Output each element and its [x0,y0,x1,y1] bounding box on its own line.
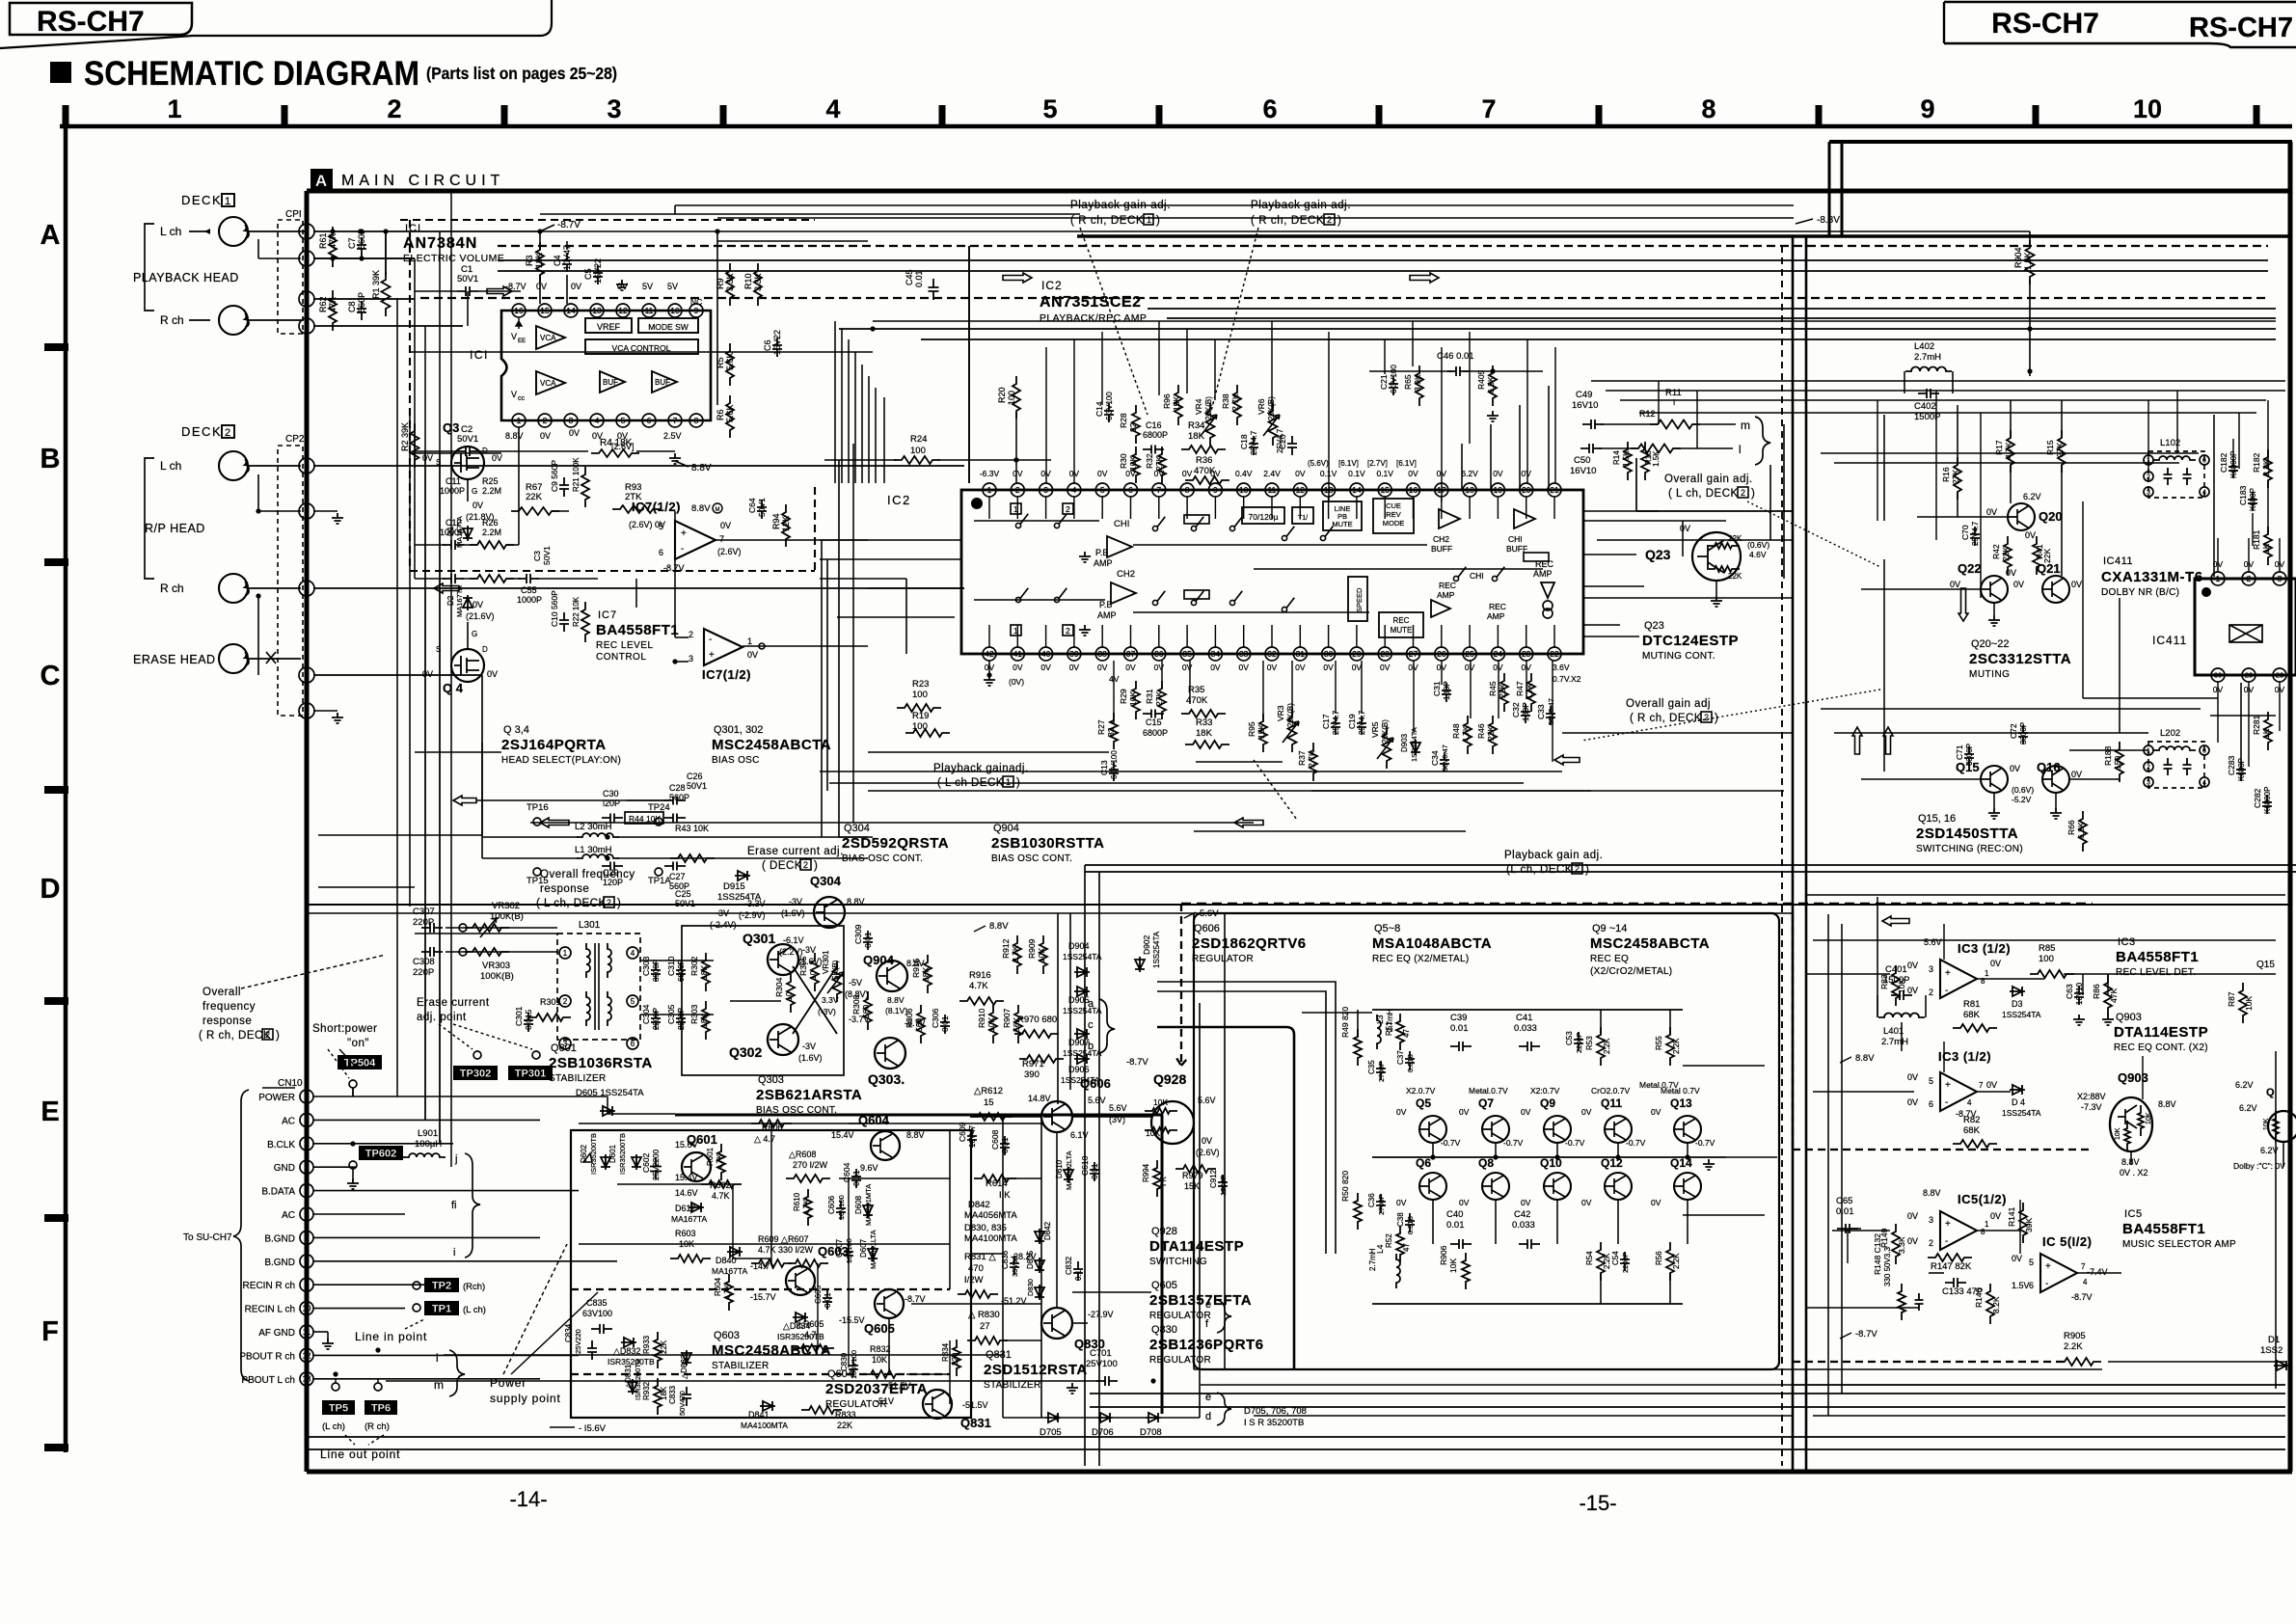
svg-text:47K: 47K [328,297,338,312]
diode D607 MA4091LTA [868,1246,878,1261]
svg-text:REC EQ: REC EQ [1590,954,1629,964]
resistor R601 4.7K [717,1144,725,1180]
grid ruler horizontal line [60,124,2292,129]
svg-text:6.3V100: 6.3V100 [1390,365,1398,393]
wire [2217,682,2219,743]
svg-text:RS-CH7: RS-CH7 [37,6,145,38]
diode D842 2 [1035,1229,1044,1244]
svg-text:R609 △R607: R609 △R607 [758,1234,808,1244]
TP2 circle [413,1282,420,1289]
svg-text:100: 100 [2039,954,2054,964]
svg-text:10K: 10K [1037,948,1046,962]
wire [820,539,961,541]
svg-text:220: 220 [951,1352,959,1366]
svg-text:1: 1 [1013,626,1018,636]
TP6 circle [374,1383,382,1391]
svg-text:0V: 0V [1013,469,1023,478]
leader dashes gain lch [1254,760,1297,820]
svg-text:5: 5 [304,670,309,680]
wire [861,365,863,483]
pot VR5 20K(B) [1383,726,1391,769]
wire CP2 pin2 right [313,465,964,467]
svg-text:D830: D830 [1026,1279,1035,1296]
wire [1133,544,1427,546]
capacitor C8 560P [357,301,366,320]
IC1 BUF amp 2 [652,371,677,392]
svg-text:0V: 0V [2013,580,2024,589]
wire [1357,1010,1359,1037]
wire [396,299,398,1096]
wire [1794,1384,2285,1386]
resistor R303 18K [702,1001,710,1040]
svg-text:-15.5V: -15.5V [839,1315,865,1325]
capacitor C5 16V22 [593,265,603,284]
svg-text:C833: C833 [668,1385,677,1404]
svg-text:C834: C834 [564,1323,573,1342]
wire [717,240,868,242]
power supply inner dashed 2 [571,1373,950,1375]
wire [2267,480,2269,534]
IC2 SPEED box [1348,577,1367,621]
svg-text:0V: 0V [1069,663,1080,672]
svg-text:8.8V: 8.8V [691,463,712,474]
leader arrows erase adj [439,1024,473,1049]
TP302 circle [473,1051,481,1059]
svg-text:0V: 0V [1465,663,1475,672]
svg-text:0.4V: 0.4V [1235,469,1253,478]
IC2 pin stub bottom [1130,625,1132,647]
IC2 pin 35 [1180,647,1194,661]
capacitor C14 6.3V100 [1104,403,1114,422]
svg-text:1: 1 [304,583,309,593]
wire [1883,415,1885,521]
svg-text:20K(B): 20K(B) [1381,719,1390,744]
svg-text:TP301: TP301 [515,1069,546,1080]
svg-text:2: 2 [1327,215,1332,225]
svg-text:To SU-CH7: To SU-CH7 [183,1232,232,1243]
svg-text:22K: 22K [2001,547,2011,561]
wire [2248,682,2250,767]
svg-text:T1/: T1/ [1298,515,1308,522]
svg-text:(0.6V): (0.6V) [1747,540,1769,550]
svg-text:0V: 0V [1990,959,2001,968]
wire [2232,439,2234,464]
IC2 internal ground 1 [1079,552,1091,562]
svg-text:d: d [1205,1411,1211,1422]
wire [1098,872,1100,1466]
CP1 pin 2 [299,224,314,239]
junction [1493,1154,1498,1159]
svg-text:1: 1 [2147,748,2150,755]
svg-text:0V: 0V [1651,1107,1661,1117]
svg-text:-: - [709,635,712,645]
wire [1495,1143,1497,1157]
IC2 pin 42 [983,647,996,661]
transistor Q831 [923,1390,952,1419]
svg-text:7: 7 [2081,1262,2086,1271]
svg-text:Q5~8: Q5~8 [1374,923,1400,934]
capacitor C402 1500P [1918,389,1939,398]
wire [1834,732,2148,734]
voltage 8.8V under IC1 [675,461,689,467]
capacitor C604 0.01 [851,1169,861,1188]
IC2 pin stub bottom [1328,625,1330,647]
svg-text:R51: R51 [1385,1021,1393,1036]
capacitor C4 10V47 [562,253,572,272]
IC2 pin42 ground [988,661,990,675]
svg-text:-7.3V: -7.3V [2081,1102,2102,1112]
diode D610 MA4062LTA [1064,1167,1073,1182]
wire [2240,683,2242,762]
svg-text:MUTE: MUTE [1332,520,1352,528]
svg-text:C31: C31 [1432,681,1442,696]
svg-text:31: 31 [1296,649,1306,659]
svg-text:R834: R834 [941,1342,950,1362]
svg-text:(2.6V): (2.6V) [717,547,742,556]
svg-text:3.9K: 3.9K [1413,374,1422,392]
svg-text:3: 3 [304,294,309,304]
svg-text:2: 2 [689,630,693,639]
svg-text:R832: R832 [870,1344,891,1354]
wire [309,912,1794,914]
IC2 pin 40 [1040,647,1053,661]
wire [439,453,441,1144]
REC EQ bottom rail [1372,1303,1683,1305]
svg-text:0V: 0V [1581,1198,1592,1207]
svg-text:4: 4 [305,1163,310,1172]
svg-text:2.4V: 2.4V [1263,469,1281,478]
svg-text:6.2V: 6.2V [2235,1080,2254,1090]
wire [415,933,557,934]
grid ruler tick [1376,105,1383,126]
grid ruler row tick [44,786,68,794]
svg-text:10K: 10K [1448,1259,1458,1273]
wire [2019,1200,2021,1254]
svg-text:L ch: L ch [160,225,181,238]
grid ruler tick [501,105,508,126]
wire [1498,661,1499,718]
IC2 pin stub bottom [1526,625,1527,647]
wire [1084,865,1086,1466]
junction [1554,1154,1559,1159]
svg-text:Metal.0.7V: Metal.0.7V [1469,1086,1508,1096]
TP602 circle [349,1161,357,1169]
svg-text:SCHEMATIC DIAGRAM: SCHEMATIC DIAGRAM [84,55,419,93]
wire [1957,405,1958,465]
IC1 BUF amp 1 [600,371,625,392]
capacitor C830 100V100 [849,1358,858,1377]
svg-text:ISR35200TB: ISR35200TB [618,1133,627,1175]
svg-text:R610: R610 [793,1192,801,1211]
wire C2 to R4 [415,450,457,452]
wire [949,1130,951,1289]
svg-text:MSA1048ABCTA: MSA1048ABCTA [1372,935,1492,952]
resistor R912 2.7K [1013,935,1021,974]
connector CP2 dashed shell [278,446,303,716]
IC2 pin stub top [1384,497,1386,519]
svg-text:1.5V: 1.5V [2012,1281,2030,1290]
svg-text:2.7K: 2.7K [1011,945,1020,962]
IC2 pin 21 [1548,483,1561,497]
svg-text:Q304: Q304 [844,823,870,834]
svg-text:C28: C28 [669,783,686,793]
resistor R304 10 [787,974,795,1013]
capacitor C6 16V22 [772,338,782,357]
svg-text:R52: R52 [1385,1233,1393,1248]
svg-text:C608: C608 [990,1129,1000,1150]
svg-text:Q904: Q904 [993,823,1019,834]
wire [1069,913,1071,1090]
wire [1495,1200,1497,1244]
wire [446,927,557,929]
svg-text:4: 4 [1967,1098,1972,1107]
svg-text:Playback gainadj.: Playback gainadj. [933,763,1029,774]
IC1 VREF box [585,318,632,333]
svg-text:20K(B): 20K(B) [1204,396,1213,420]
svg-text:11: 11 [303,1328,311,1337]
IC2 pin stub bottom [1384,625,1386,647]
resistor R87 10K right edge [2239,983,2247,1023]
svg-text:0V: 0V [1396,1198,1407,1207]
wire [608,1113,675,1115]
svg-text:C63: C63 [2065,984,2074,999]
svg-text:390: 390 [1024,1069,1040,1080]
wire [1201,1384,2285,1386]
resistor R14 1.5K [1624,442,1632,480]
wire [1783,424,1785,579]
AF GND ground [327,1332,329,1339]
svg-text:C17: C17 [1321,714,1331,729]
svg-text:3: 3 [2278,574,2282,583]
pot VR6 20K(B) [1269,403,1278,446]
svg-text:6: 6 [2202,458,2206,465]
diode D705 [1045,1413,1061,1422]
wire [2279,682,2281,731]
svg-text:C38: C38 [1396,1212,1405,1227]
resistor R188 150 [2116,742,2123,782]
IC2 internal switch 10 [1152,600,1157,605]
svg-text:2.2K: 2.2K [2261,459,2271,476]
svg-text:Q303: Q303 [758,1074,784,1086]
svg-text:10K: 10K [2263,1118,2270,1130]
capacitor C72 3300P [2018,725,2028,744]
svg-text:STABILIZER: STABILIZER [549,1073,607,1084]
wire [1432,1143,1434,1157]
svg-text:C36: C36 [1367,1193,1376,1207]
resistor R66 6.8K [2079,811,2087,852]
svg-text:TP1A: TP1A [648,876,671,886]
resistor R94 12K [782,504,790,547]
resistor R95 15K [1259,714,1267,752]
svg-text:6800P: 6800P [1143,728,1168,738]
svg-text:j: j [454,1153,457,1165]
svg-text:+: + [1945,1219,1951,1230]
IC2 pin 36 [1152,647,1166,661]
wire [854,352,856,483]
svg-text:1SS254TA: 1SS254TA [1152,931,1161,968]
wire [1669,1273,1671,1304]
capacitor C183 K680P [2248,492,2257,511]
svg-text:1: 1 [747,636,752,646]
IC2 pin 28 [1378,647,1391,661]
IC2 internal switch 8 [1015,597,1020,602]
IC2 body outline [961,490,1583,654]
svg-text:4: 4 [825,95,840,123]
svg-text:1: 1 [167,95,181,123]
resistor R61 47K [329,227,337,267]
svg-text:63V100: 63V100 [582,1309,612,1318]
svg-text:R910: R910 [977,1008,986,1028]
svg-text:REC: REC [1439,581,1456,590]
svg-text:IC3 (1/2): IC3 (1/2) [1958,941,2011,956]
wire [1003,1380,1070,1382]
svg-text:X2:88V: X2:88V [2077,1092,2106,1101]
svg-text:2.7mH: 2.7mH [1881,1037,1908,1047]
resistor R149 3.3K [1892,1224,1900,1264]
IC2 pin 38 [1095,647,1109,661]
wire [2083,697,2218,699]
wire [410,452,501,454]
svg-text:37: 37 [1126,649,1136,659]
wire [1193,913,1195,1369]
wire [2107,974,2109,995]
page curl line top-left [0,0,552,48]
svg-text:18K: 18K [534,253,544,268]
svg-text:AN7351SCE2: AN7351SCE2 [1040,294,1142,311]
IC2 pin stub top [988,497,990,519]
svg-text:C307: C307 [413,907,435,917]
svg-text:CONTROL: CONTROL [596,652,646,663]
svg-text:5: 5 [621,416,626,425]
svg-text:0V: 0V [2006,568,2016,578]
svg-text:470: 470 [968,1263,984,1274]
wire CP2 pin5 right [313,674,482,676]
svg-text:D601: D601 [608,1144,617,1163]
svg-text:2: 2 [1066,504,1070,514]
svg-text:2.7mH: 2.7mH [1368,1248,1377,1271]
wire [674,205,676,214]
transistor Q16 [2042,766,2069,793]
IC411 pin 29 [2242,668,2255,682]
REC EQ gnd mid [1703,1159,1715,1170]
svg-text:-8.7V: -8.7V [1855,1329,1877,1340]
grid ruler row tick [44,1444,68,1451]
hollow arrow up VR8 area 2 [1883,727,1893,754]
svg-text:R87: R87 [2227,991,2236,1007]
IC1 pin 16 [512,304,526,317]
TP1 circle [413,1304,420,1312]
svg-text:27K: 27K [2055,443,2065,457]
IC2 internal ground 2 [1079,625,1091,636]
svg-text:-5V: -5V [849,978,862,988]
wire IC7 out right [716,539,868,541]
wire [424,326,426,1120]
svg-text:0V: 0V [1210,663,1221,672]
bias osc cross wire 1 [793,966,837,1034]
wire [313,257,415,259]
svg-text:27: 27 [1409,649,1418,659]
svg-text:+: + [1945,1080,1951,1091]
voltage label -8.8V top right [1796,219,1813,224]
IC1 pin 9 [689,304,703,317]
capacitor C832 0.1 [1073,1261,1083,1281]
svg-text:24: 24 [1494,649,1503,659]
svg-text:(21.6V): (21.6V) [466,611,495,621]
wire [1861,588,1981,590]
svg-text:(R ch): (R ch) [365,1421,390,1432]
wire [2142,1056,2144,1099]
IC2 internal switch 3 [1152,526,1157,530]
svg-text:K6800P: K6800P [2263,787,2272,814]
svg-text:K680P: K680P [2249,488,2257,511]
svg-text:D608: D608 [854,1195,863,1214]
wire [1600,1273,1602,1304]
svg-text:C37: C37 [1396,1050,1405,1065]
svg-text:REC LEVEL DET.: REC LEVEL DET. [2116,967,2196,978]
wire CN10 pin 12 [313,1354,579,1356]
brace l/m [449,1350,465,1396]
IC2 pin stub bottom [1299,625,1301,647]
IC2 pin stub bottom [1356,625,1358,647]
coil L401 2.7mH [1878,1014,1925,1018]
junction [986,672,991,677]
wire pin2 right [313,230,540,232]
transistor Q302 [768,1024,798,1055]
TP6 box [365,1400,397,1415]
dashed shield box bottom [410,570,815,572]
svg-text:C303: C303 [641,956,651,976]
L401 tank wires [1877,995,1878,1017]
wire [868,376,870,483]
wire [848,1178,850,1367]
TP2 box [424,1278,459,1292]
svg-text:16V22: 16V22 [772,330,782,355]
svg-text:4: 4 [2083,1278,2088,1286]
IC2 pin 8 [1180,483,1194,497]
svg-text:R61: R61 [318,232,328,249]
leader power supply [503,1244,567,1374]
svg-text:2: 2 [305,1116,310,1124]
wire [1194,1368,2102,1370]
svg-text:0V: 0V [1459,1107,1470,1117]
IC2 pin stub bottom [1045,625,1047,647]
wire CN10 pin 13 [313,1378,540,1380]
wire head L to CP1 [248,230,301,232]
svg-text:8: 8 [694,416,699,425]
wire [617,1183,733,1185]
IC2 pin stub bottom [988,625,990,647]
wire R20 down to pin2 [1015,413,1017,483]
junction [1150,1378,1155,1383]
svg-text:22K: 22K [837,1421,852,1430]
wire [1977,1230,2020,1232]
IC2 pin 17 [1435,483,1448,497]
REC EQ mid rail [1372,1156,1726,1158]
svg-text:8: 8 [1701,95,1715,123]
wire [1935,391,1937,540]
IC2 pin stub bottom [1271,625,1273,647]
svg-text:2200P: 2200P [1621,1252,1630,1273]
svg-text:C6: C6 [763,339,772,351]
wire [1813,939,2276,941]
svg-text:-3V: -3V [802,945,816,955]
wire [1877,897,1878,1017]
wire [1687,1143,1688,1157]
IC2 pin stub top [1016,497,1018,519]
IC2 internal switch 14 [1453,576,1458,581]
wire [579,1096,608,1097]
svg-text:REC: REC [1489,602,1506,611]
